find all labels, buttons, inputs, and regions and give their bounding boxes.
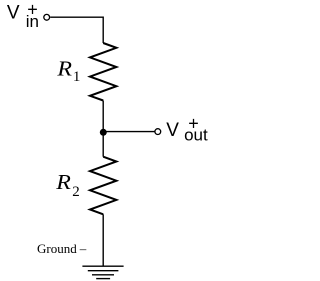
svg-text:+: +	[27, 0, 38, 20]
svg-text:1: 1	[73, 69, 81, 85]
svg-text:+: +	[188, 113, 199, 133]
svg-text:R: R	[56, 57, 72, 80]
svg-text:Ground: Ground	[37, 241, 77, 256]
svg-text:V: V	[166, 120, 179, 141]
svg-text:R: R	[55, 171, 71, 194]
svg-text:–: –	[79, 241, 87, 256]
svg-text:V: V	[7, 3, 20, 24]
svg-text:2: 2	[72, 184, 80, 200]
